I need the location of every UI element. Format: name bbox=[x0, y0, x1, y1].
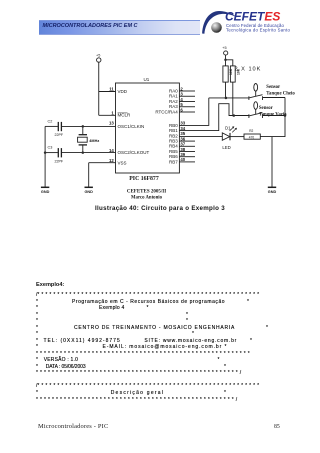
junction R3 bottom / RB0 net bbox=[225, 97, 228, 100]
svg-text:Sensor: Sensor bbox=[266, 85, 281, 90]
ground GND2 bbox=[85, 186, 93, 188]
resistor R4 bbox=[230, 66, 235, 82]
resistor R3 bbox=[223, 66, 228, 82]
junction C3 / ground rail bbox=[44, 151, 47, 154]
svg-text:22PF: 22PF bbox=[55, 159, 64, 163]
svg-text:470: 470 bbox=[249, 136, 255, 140]
label Sensor Tanque Cheio bbox=[266, 85, 295, 96]
pin stub RB7 bbox=[179, 161, 195, 163]
svg-text:RB7: RB7 bbox=[169, 159, 178, 164]
resistor R2 box bbox=[244, 134, 260, 139]
svg-text:Marco Antonio: Marco Antonio bbox=[131, 196, 163, 201]
pin stub RTCC/RA4 bbox=[179, 111, 195, 113]
wire to VDD pin 11 bbox=[99, 91, 116, 93]
svg-text:PIC 16F877: PIC 16F877 bbox=[129, 176, 159, 182]
svg-text:13: 13 bbox=[109, 121, 114, 126]
left pin numbers bbox=[109, 87, 114, 163]
pin stub RA0 bbox=[179, 90, 195, 92]
svg-text:RA0: RA0 bbox=[169, 88, 178, 93]
pin stub RA2 bbox=[179, 101, 195, 103]
switch SW2 lever bbox=[249, 113, 263, 118]
circuit schematic bbox=[0, 0, 320, 230]
LED D1 bbox=[222, 133, 229, 140]
wire RB2 to LED bbox=[179, 136, 222, 138]
wire VCC vertical bbox=[98, 62, 100, 115]
svg-text:U1: U1 bbox=[144, 77, 150, 82]
svg-text:D1: D1 bbox=[225, 125, 231, 130]
svg-text:11: 11 bbox=[109, 87, 114, 92]
capacitor C3 bbox=[45, 152, 58, 154]
pin stub RA3 bbox=[179, 106, 195, 108]
svg-text:34: 34 bbox=[180, 126, 185, 131]
pin stub RA1 bbox=[179, 95, 195, 97]
svg-text:+5: +5 bbox=[96, 54, 100, 58]
svg-text:10K: 10K bbox=[229, 68, 233, 75]
wire to MCLR pin 1 bbox=[99, 114, 116, 116]
wire SW1 right bbox=[263, 97, 285, 99]
wire RB1 net to switch 2 bbox=[179, 104, 249, 131]
svg-text:Sensor: Sensor bbox=[259, 106, 274, 111]
svg-text:GND: GND bbox=[84, 190, 93, 194]
svg-text:12: 12 bbox=[109, 158, 114, 163]
wire caps to ground bbox=[44, 126, 46, 187]
svg-text:VDD: VDD bbox=[118, 89, 128, 94]
wire VSS bbox=[89, 162, 116, 164]
svg-text:+5: +5 bbox=[222, 46, 226, 50]
CEFETES logo bbox=[190, 6, 315, 42]
switch SW1 lever bbox=[249, 95, 263, 100]
wire RB0 net to switch 1 bbox=[179, 98, 249, 126]
svg-text:GND: GND bbox=[268, 190, 277, 194]
wire OSC2 bbox=[62, 152, 116, 154]
svg-text:40: 40 bbox=[180, 157, 185, 162]
wire OSC1 bbox=[62, 125, 116, 127]
power +5V right rail bbox=[224, 51, 228, 55]
wire switches to R2 corner bbox=[260, 98, 285, 137]
svg-text:Tanque Vazio: Tanque Vazio bbox=[259, 112, 287, 117]
pin stub RB5 bbox=[179, 151, 195, 153]
LED D1 emission arrows bbox=[232, 126, 237, 130]
switch SW1 actuator bbox=[254, 84, 258, 92]
wire to ground GND3 bbox=[271, 137, 273, 187]
svg-text:10K: 10K bbox=[236, 68, 240, 75]
svg-text:LED: LED bbox=[222, 145, 230, 150]
svg-text:Tanque Cheio: Tanque Cheio bbox=[266, 92, 295, 97]
svg-text:RB1: RB1 bbox=[169, 128, 178, 133]
junction crystal bottom / OSC2 bbox=[82, 151, 85, 154]
svg-text:OSC1/CLKIN: OSC1/CLKIN bbox=[118, 124, 145, 129]
footer page number bbox=[274, 424, 280, 430]
wire R3 bottom bbox=[225, 82, 227, 98]
pin stub RB6 bbox=[179, 156, 195, 158]
header bar bbox=[39, 20, 200, 35]
header title bbox=[43, 23, 138, 29]
capacitor C2 bbox=[45, 125, 58, 127]
crystal X1 bbox=[82, 126, 84, 134]
wire SW2 right bbox=[263, 115, 285, 117]
switch SW2 actuator bbox=[254, 102, 258, 110]
junction VCC2 branch bbox=[224, 59, 227, 62]
junction switch outputs node bbox=[284, 114, 287, 117]
svg-text:C2: C2 bbox=[48, 120, 53, 124]
wire VCC2 bbox=[226, 55, 233, 66]
IC U1 PIC16F877 body bbox=[116, 83, 180, 173]
MCLR overline bbox=[118, 112, 128, 114]
right pin numbers bbox=[180, 86, 185, 162]
IC right pin names bbox=[155, 88, 178, 164]
footer left bbox=[38, 423, 108, 430]
wire LED to R2 bbox=[230, 136, 244, 138]
svg-text:CEFETES 2005/II: CEFETES 2005/II bbox=[127, 190, 166, 195]
svg-text:MCLR: MCLR bbox=[118, 113, 132, 118]
pin stub RB4 bbox=[179, 145, 195, 147]
svg-text:RTCC/RA4: RTCC/RA4 bbox=[155, 109, 178, 114]
svg-text:1: 1 bbox=[111, 111, 114, 116]
label Sensor Tanque Vazio bbox=[259, 106, 287, 117]
svg-text:OSC2/CLKOUT: OSC2/CLKOUT bbox=[118, 150, 150, 155]
svg-text:GND: GND bbox=[41, 190, 50, 194]
svg-text:22PF: 22PF bbox=[55, 133, 64, 137]
wire R4 bottom bbox=[232, 82, 234, 115]
junction R4 bottom / RB1 net bbox=[232, 114, 235, 117]
junction crystal top / OSC1 bbox=[82, 125, 85, 128]
svg-text:4MHz: 4MHz bbox=[89, 139, 99, 143]
power +5V left rail bbox=[97, 58, 101, 62]
svg-text:C3: C3 bbox=[48, 146, 53, 150]
svg-text:14: 14 bbox=[109, 148, 114, 153]
pin stub RB3 bbox=[179, 140, 195, 142]
svg-text:R2: R2 bbox=[249, 129, 253, 133]
svg-text:VSS: VSS bbox=[118, 160, 127, 165]
code block bbox=[36, 282, 64, 288]
svg-text:RA2: RA2 bbox=[169, 99, 178, 104]
ground GND1 bbox=[41, 186, 49, 188]
caption bbox=[95, 205, 225, 212]
